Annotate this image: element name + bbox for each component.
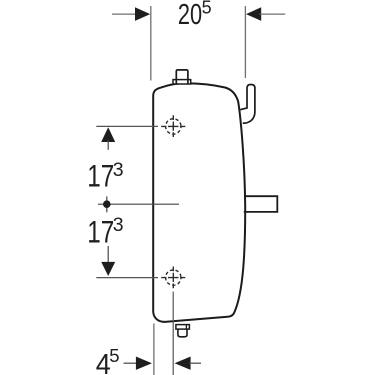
center point horizontal centerline: [98, 203, 179, 205]
left dimension down arrow stem: [107, 246, 109, 264]
wall hook: [240, 85, 255, 124]
center point vertical tick: [106, 196, 108, 212]
bottom dimension arrow right: [175, 357, 191, 370]
top dimension arrow right: [246, 7, 261, 21]
top dimension line left segment: [112, 13, 137, 15]
mounting hole bottom: horizontal centerline: [161, 277, 185, 279]
bottom dimension line left: [124, 362, 138, 364]
mounting hole bottom: vertical centerline: [172, 267, 174, 289]
svg-text:5: 5: [202, 0, 212, 18]
top fitting stem: [176, 70, 188, 84]
left dimension line bottom: [96, 277, 158, 279]
left dimension up arrow stem: [107, 141, 109, 150]
top fitting flange: [173, 80, 191, 84]
bottom fitting flange inner line: [185, 325, 187, 330]
svg-text:17: 17: [87, 213, 114, 249]
bottom dimension arrow right stem: [190, 362, 202, 364]
mounting hole top: horizontal centerline: [161, 125, 185, 127]
mounting hole top: dashed circle: [166, 119, 181, 134]
left dimension down arrow: [101, 262, 115, 276]
centerline below bottom hole: [172, 292, 174, 375]
svg-text:20: 20: [178, 0, 202, 31]
cistern body outline: [153, 83, 245, 322]
bottom extension line left: [153, 324, 155, 375]
bottom dimension arrow left: [136, 357, 152, 370]
svg-text:3: 3: [113, 214, 124, 236]
center point dot: [103, 200, 111, 208]
top extension line left: [150, 6, 152, 81]
top dimension line right segment: [260, 13, 286, 15]
top extension line right: [244, 6, 246, 78]
bottom fitting spigot: [178, 329, 187, 337]
water supply spud: [244, 196, 277, 212]
top dimension arrow left: [135, 7, 150, 21]
mounting hole top: vertical centerline: [172, 115, 174, 137]
bottom fitting flange: [176, 325, 190, 330]
left dimension up arrow: [101, 127, 115, 142]
mounting hole bottom: dashed circle: [166, 270, 181, 285]
svg-text:3: 3: [113, 159, 124, 181]
svg-text:5: 5: [109, 345, 119, 366]
svg-text:17: 17: [87, 158, 114, 194]
left dimension line top: [96, 125, 158, 127]
